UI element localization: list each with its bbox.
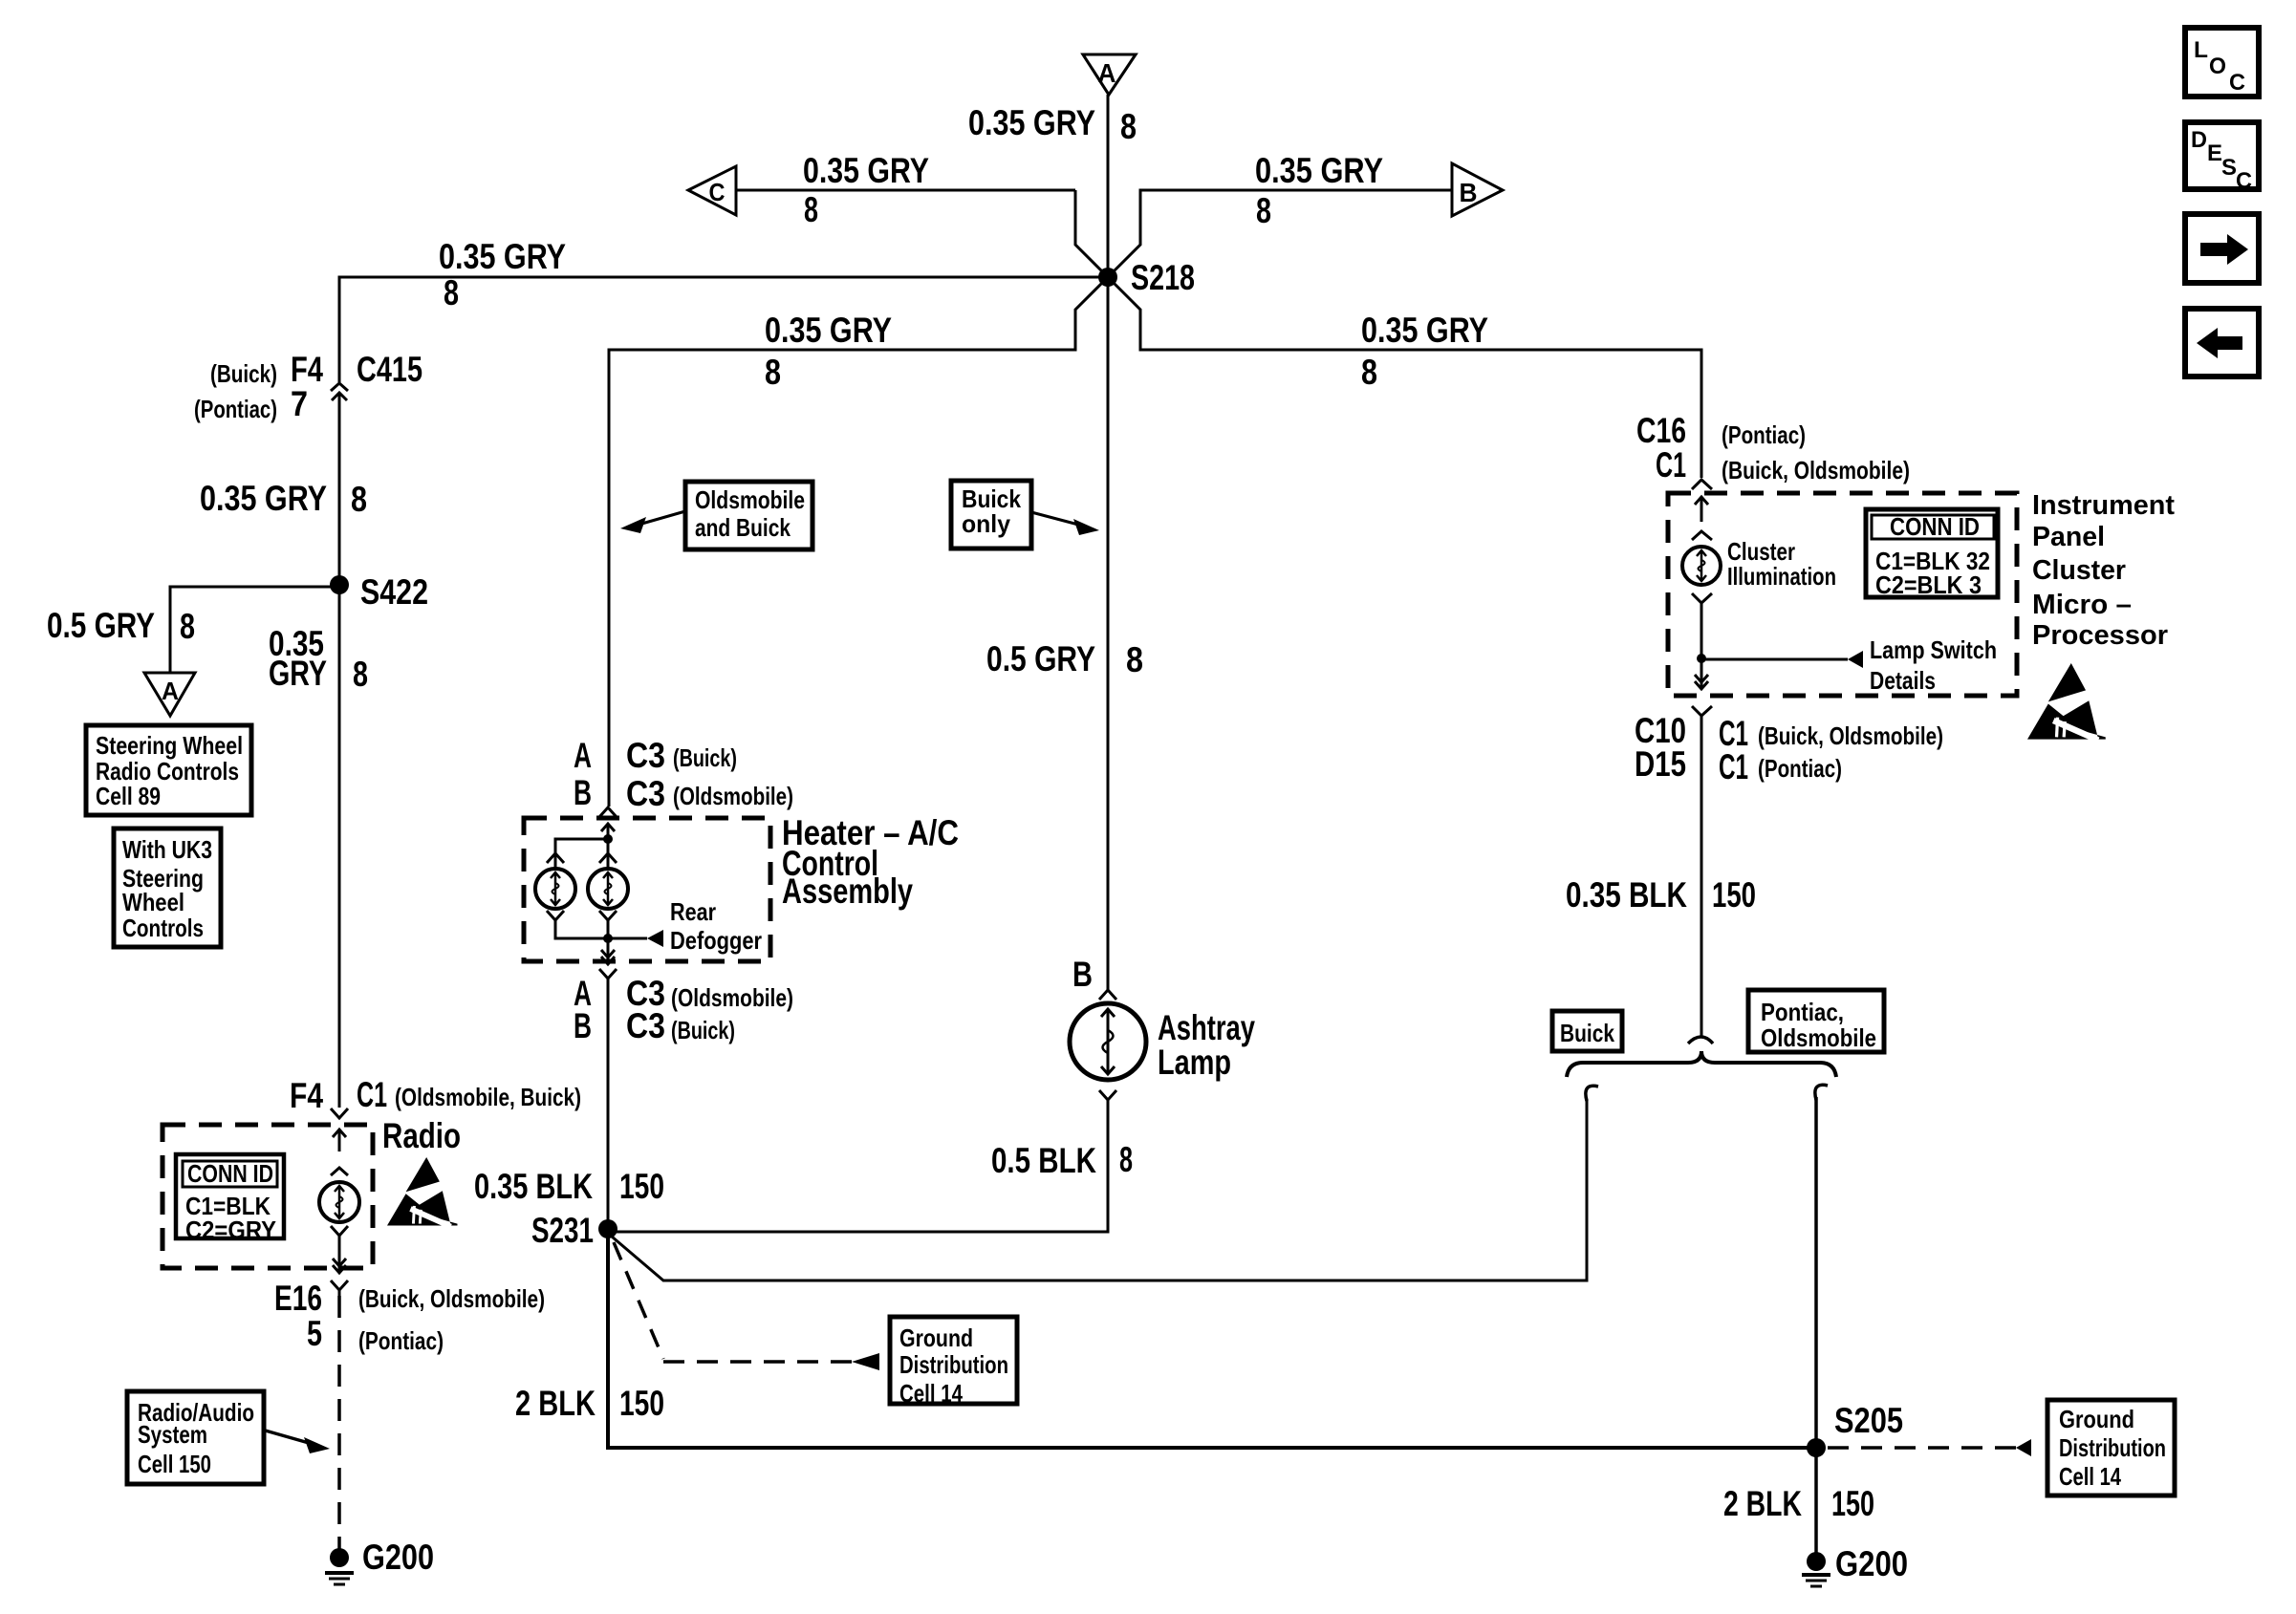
svg-text:only: only (962, 509, 1011, 538)
svg-text:C: C (2229, 70, 2245, 96)
svg-text:Oldsmobile: Oldsmobile (695, 485, 805, 514)
svg-text:(Pontiac): (Pontiac) (358, 1326, 444, 1355)
svg-text:CONN ID: CONN ID (1890, 512, 1980, 541)
svg-text:(Oldsmobile): (Oldsmobile) (671, 983, 793, 1012)
svg-text:0.35 GRY: 0.35 GRY (200, 479, 327, 518)
svg-text:F4: F4 (290, 1076, 323, 1115)
svg-text:C3: C3 (626, 736, 665, 775)
svg-text:5: 5 (307, 1314, 322, 1353)
svg-text:(Buick, Oldsmobile): (Buick, Oldsmobile) (1758, 721, 1943, 750)
svg-text:8: 8 (180, 607, 195, 646)
svg-text:B: B (1460, 178, 1478, 207)
svg-text:Ashtray: Ashtray (1158, 1008, 1255, 1047)
svg-text:Micro –: Micro – (2032, 590, 2132, 620)
svg-text:8: 8 (1120, 107, 1137, 146)
svg-text:Radio: Radio (382, 1116, 461, 1155)
svg-text:0.35 GRY: 0.35 GRY (968, 103, 1095, 142)
svg-text:F4: F4 (291, 350, 323, 389)
svg-text:C2=GRY: C2=GRY (185, 1216, 276, 1244)
svg-text:Ground: Ground (899, 1323, 973, 1352)
svg-text:System: System (138, 1420, 207, 1449)
svg-text:S205: S205 (1834, 1401, 1903, 1440)
svg-text:8: 8 (353, 655, 368, 694)
svg-text:(Oldsmobile): (Oldsmobile) (673, 782, 793, 810)
svg-text:(Pontiac): (Pontiac) (1722, 420, 1806, 449)
svg-text:S: S (2221, 155, 2237, 181)
svg-text:S218: S218 (1131, 258, 1195, 297)
svg-text:C: C (2236, 168, 2252, 194)
svg-text:E16: E16 (274, 1279, 322, 1318)
svg-text:8: 8 (351, 480, 367, 519)
svg-text:C1: C1 (1719, 747, 1748, 786)
svg-text:D15: D15 (1635, 744, 1686, 784)
svg-text:B: B (574, 773, 592, 812)
svg-text:2 BLK: 2 BLK (1723, 1484, 1802, 1523)
svg-text:and Buick: and Buick (695, 513, 791, 542)
svg-text:C1: C1 (357, 1075, 387, 1114)
svg-text:G200: G200 (362, 1538, 434, 1577)
svg-text:Illumination: Illumination (1727, 562, 1836, 591)
svg-text:E: E (2207, 140, 2222, 166)
svg-text:A: A (162, 677, 179, 705)
svg-text:0.35 GRY: 0.35 GRY (765, 311, 892, 350)
svg-text:0.35 BLK: 0.35 BLK (1566, 875, 1687, 915)
svg-text:S231: S231 (531, 1211, 594, 1250)
svg-text:0.5 BLK: 0.5 BLK (991, 1141, 1096, 1180)
svg-text:C16: C16 (1636, 411, 1686, 450)
svg-text:Cell 150: Cell 150 (138, 1450, 211, 1478)
svg-text:Cell 14: Cell 14 (899, 1379, 963, 1408)
svg-text:C2=BLK 3: C2=BLK 3 (1875, 570, 1982, 599)
svg-text:Buick: Buick (1560, 1019, 1614, 1047)
svg-text:D: D (2191, 127, 2207, 153)
svg-text:8: 8 (1126, 640, 1143, 679)
svg-text:B: B (1072, 955, 1093, 994)
svg-text:(Buick): (Buick) (671, 1016, 735, 1044)
svg-text:(Buick): (Buick) (673, 743, 737, 772)
svg-text:Instrument: Instrument (2032, 490, 2175, 521)
svg-text:A: A (574, 736, 592, 775)
svg-text:Distribution: Distribution (899, 1350, 1008, 1379)
svg-text:A: A (1098, 58, 1116, 88)
svg-text:8: 8 (765, 353, 781, 392)
svg-text:Ground: Ground (2059, 1405, 2134, 1433)
svg-text:150: 150 (1831, 1484, 1874, 1523)
svg-text:150: 150 (1712, 875, 1756, 915)
svg-text:0.5 GRY: 0.5 GRY (986, 639, 1095, 678)
svg-text:Cell 14: Cell 14 (2059, 1462, 2121, 1491)
svg-text:Processor: Processor (2032, 620, 2168, 651)
svg-text:8: 8 (804, 190, 818, 229)
svg-text:(Buick, Oldsmobile): (Buick, Oldsmobile) (1722, 456, 1910, 484)
svg-text:C3: C3 (626, 1006, 665, 1045)
svg-text:150: 150 (619, 1384, 664, 1423)
svg-text:Distribution: Distribution (2059, 1433, 2166, 1462)
svg-text:(Pontiac): (Pontiac) (1758, 754, 1842, 783)
svg-text:S422: S422 (360, 572, 428, 612)
svg-text:C3: C3 (626, 774, 665, 813)
svg-text:(Oldsmobile, Buick): (Oldsmobile, Buick) (395, 1083, 581, 1111)
svg-text:0.35 GRY: 0.35 GRY (439, 237, 566, 276)
svg-text:150: 150 (619, 1167, 664, 1206)
svg-text:O: O (2209, 54, 2226, 79)
svg-text:Steering Wheel: Steering Wheel (96, 731, 243, 760)
svg-text:0.35 GRY: 0.35 GRY (1361, 311, 1488, 350)
svg-text:0.5 GRY: 0.5 GRY (47, 606, 155, 645)
svg-text:8: 8 (444, 273, 459, 312)
svg-text:C1: C1 (1656, 445, 1686, 484)
svg-text:(Pontiac): (Pontiac) (194, 395, 277, 423)
svg-text:Cluster: Cluster (2032, 555, 2126, 586)
svg-text:C: C (709, 178, 726, 206)
svg-text:0.35 BLK: 0.35 BLK (474, 1167, 593, 1206)
svg-text:0.35 GRY: 0.35 GRY (803, 151, 929, 190)
svg-text:Oldsmobile: Oldsmobile (1761, 1023, 1876, 1052)
svg-text:Pontiac,: Pontiac, (1761, 998, 1844, 1026)
svg-text:7: 7 (291, 384, 308, 423)
svg-text:CONN ID: CONN ID (187, 1159, 273, 1188)
svg-text:2 BLK: 2 BLK (515, 1384, 596, 1423)
svg-text:(Buick, Oldsmobile): (Buick, Oldsmobile) (358, 1284, 545, 1313)
svg-text:Lamp Switch: Lamp Switch (1870, 635, 1997, 664)
svg-text:Lamp: Lamp (1158, 1043, 1231, 1082)
svg-text:0.35 GRY: 0.35 GRY (1255, 151, 1383, 190)
svg-text:Assembly: Assembly (782, 872, 913, 911)
svg-text:8: 8 (1256, 191, 1271, 230)
svg-text:Cell 89: Cell 89 (96, 782, 161, 810)
svg-text:With UK3: With UK3 (122, 835, 212, 864)
svg-text:GRY: GRY (269, 654, 327, 693)
svg-text:Rear: Rear (670, 897, 716, 926)
svg-text:(Buick): (Buick) (210, 359, 277, 388)
svg-text:Details: Details (1870, 666, 1936, 695)
svg-text:8: 8 (1361, 353, 1377, 392)
svg-text:Wheel: Wheel (122, 888, 184, 916)
svg-text:Controls: Controls (122, 914, 204, 942)
svg-text:Panel: Panel (2032, 522, 2105, 552)
svg-text:Defogger: Defogger (670, 926, 762, 955)
svg-text:L: L (2194, 37, 2208, 63)
svg-text:8: 8 (1119, 1140, 1133, 1179)
svg-text:C415: C415 (357, 350, 422, 389)
svg-text:B: B (574, 1006, 592, 1045)
svg-text:G200: G200 (1835, 1544, 1908, 1583)
